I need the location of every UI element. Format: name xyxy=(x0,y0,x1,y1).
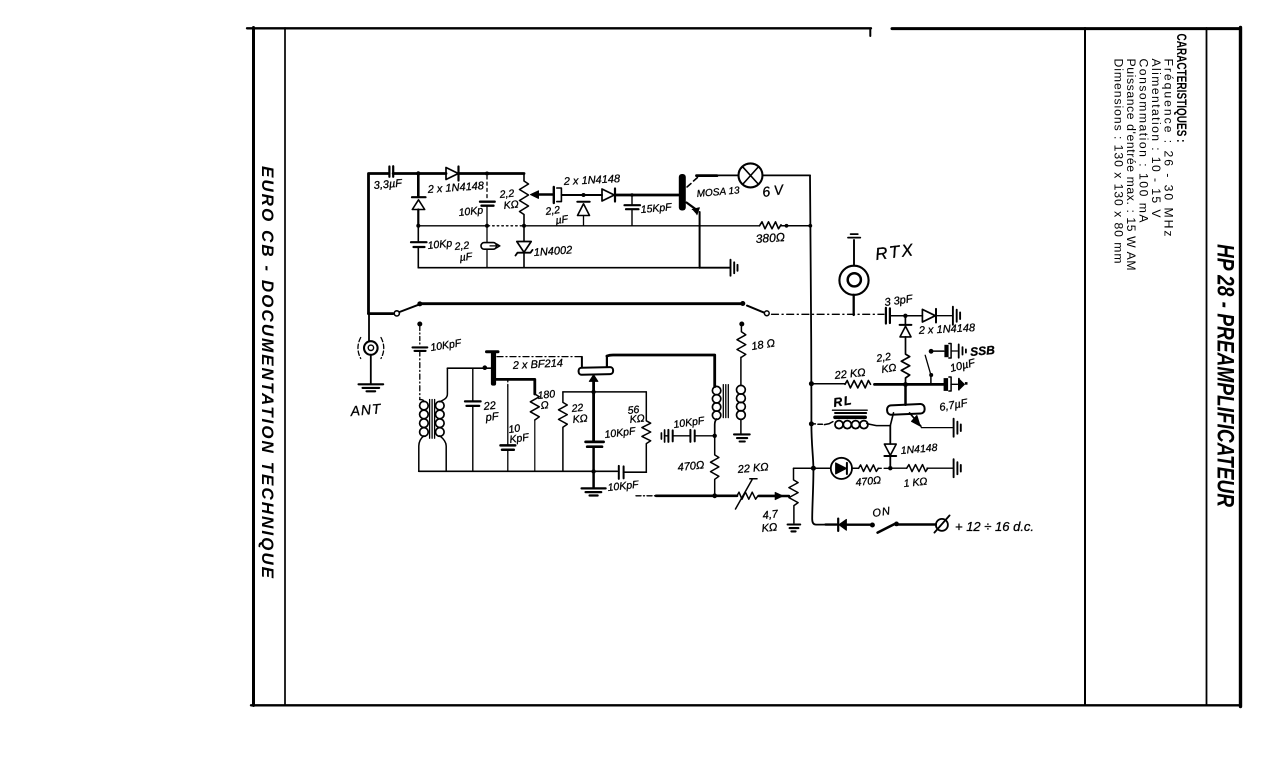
wire output ground rail (dash-dot lead in) xyxy=(636,495,656,497)
resistor 22K (AGC) xyxy=(559,392,568,471)
border frame top (with scan gap) xyxy=(247,27,871,29)
ground (4,7K bottom) xyxy=(788,525,801,532)
wire dash-dot down to 10KpF xyxy=(419,327,421,346)
node SSB contact xyxy=(929,349,934,354)
svg-text:470Ω: 470Ω xyxy=(677,459,705,474)
transistor MOSA13 emitter lead with arrow xyxy=(687,203,697,210)
transformer input: primary coil xyxy=(420,401,429,410)
svg-text:ON: ON xyxy=(872,505,892,520)
trimmer resistor 22K xyxy=(737,492,758,499)
svg-text:KΩ: KΩ xyxy=(572,412,588,426)
svg-text:KpF: KpF xyxy=(509,431,530,446)
capacitor 10KpF (antenna coupling) xyxy=(413,347,428,351)
wire diode to potentiometer 2,2K xyxy=(459,172,525,175)
junction 18R top tap xyxy=(739,322,744,327)
ground (MOSA13 emitter, sideways) xyxy=(700,267,730,269)
switch SSB select xyxy=(930,377,932,385)
capacitor 10Kp (middle, dashed lead) xyxy=(486,176,488,199)
ground (IF secondary) xyxy=(734,434,750,441)
wire dash-dot FET1 drain to FET2 xyxy=(497,356,582,358)
wire gate line to FET1 xyxy=(447,367,490,369)
svg-text:µF: µF xyxy=(459,251,473,264)
wire FET2 drain to IF transformer xyxy=(607,355,715,387)
resistor 2,2K (RTX) xyxy=(901,337,909,385)
junction 470R on output rail xyxy=(712,493,717,498)
svg-text:1N4148: 1N4148 xyxy=(900,442,938,457)
svg-text:3,3µF: 3,3µF xyxy=(373,177,404,192)
svg-text:470Ω: 470Ω xyxy=(855,474,882,489)
border frame right xyxy=(1239,28,1242,707)
wire relay left lead (dash-dot) xyxy=(811,422,833,425)
junction FET2 stem on rail xyxy=(591,469,595,473)
wire 22K to 6,7uF (thick) xyxy=(875,383,944,386)
junction RX tap below rail xyxy=(417,322,422,327)
wire wiper cap to node xyxy=(562,194,602,196)
switch blade left xyxy=(400,305,420,312)
junction 4,7K top / feed line xyxy=(811,466,816,471)
svg-text:HP 28 - PREAMPLIFICATEUR: HP 28 - PREAMPLIFICATEUR xyxy=(1212,244,1239,508)
ground (after diode, sideways) xyxy=(953,307,960,325)
svg-text:6,7µF: 6,7µF xyxy=(938,397,969,414)
svg-text:2 x 1N4148: 2 x 1N4148 xyxy=(426,180,485,196)
junction base node xyxy=(903,382,908,387)
resistor 56K xyxy=(642,392,651,472)
svg-text:22 KΩ: 22 KΩ xyxy=(736,461,769,476)
capacitor 10KpF (FET2 source) xyxy=(586,442,604,447)
diode 1N4148 (relay clamp) xyxy=(889,426,891,444)
svg-text:4,7: 4,7 xyxy=(762,508,779,522)
svg-text:KΩ: KΩ xyxy=(503,198,519,212)
diode 1N4148 shunt (left vertical) xyxy=(417,174,420,198)
junction top-left node xyxy=(416,171,420,175)
wire IF primary bottom lead xyxy=(715,419,717,436)
separator line specs column xyxy=(1084,28,1086,705)
wire MOSA13 emitter down to ground rail xyxy=(699,212,701,268)
wire antenna input riser to 3,3uF xyxy=(369,174,389,314)
ground (antenna) xyxy=(359,384,384,391)
antenna connector ANT xyxy=(368,314,370,342)
transistor right lead with arrow xyxy=(910,413,922,427)
junction gate node xyxy=(483,365,488,370)
potentiometer 2,2K vertical xyxy=(520,174,529,227)
capacitor 10KpF (series in rail) xyxy=(619,466,624,479)
diode 1N4148 a (series pair) xyxy=(446,168,458,180)
capacitor 15KpF xyxy=(630,193,634,197)
capacitor 2,2uF electrolytic (filter) xyxy=(486,226,488,268)
svg-text:2 x BF214: 2 x BF214 xyxy=(512,357,564,372)
capacitor 2,2uF electrolytic (pot wiper) xyxy=(553,187,555,203)
svg-text:10Kp: 10Kp xyxy=(427,237,453,252)
svg-text:RL: RL xyxy=(832,393,854,410)
separator line HP28 column xyxy=(1206,28,1208,705)
wire dash-dot RTX line xyxy=(772,313,885,315)
ground (1K, sideways) xyxy=(954,459,961,477)
resistor 1K xyxy=(890,467,906,469)
lamp 6V xyxy=(739,163,763,187)
diode 1N4148 (vertical, to 2,2K) xyxy=(904,316,906,325)
border frame bottom xyxy=(251,704,1240,706)
IF transformer primary coil xyxy=(712,386,720,394)
wire ground rail of power section xyxy=(418,267,699,269)
capacitor 10Kp (left leg) xyxy=(417,226,419,241)
wire primary bottom lead to rail xyxy=(419,436,424,472)
junction 10Kp top node xyxy=(485,172,489,176)
svg-text:µF: µF xyxy=(555,213,570,227)
LED indicator xyxy=(831,458,852,479)
diode clamp at node 583 xyxy=(577,201,589,203)
wire RF section ground rail xyxy=(419,470,618,472)
wire secondary bottom lead to rail xyxy=(440,436,446,472)
ground (emitter, sideways) xyxy=(954,419,961,437)
diode 1N4148 (to ground, horizontal) xyxy=(922,309,935,322)
wire switch to supply connector xyxy=(897,523,936,525)
junction node at 583 xyxy=(582,193,586,197)
svg-text:SSB: SSB xyxy=(970,343,996,359)
transformer input: core lines xyxy=(430,400,435,439)
ground stub (series caps left) xyxy=(661,430,664,442)
switch blade right xyxy=(747,306,764,313)
diode 1N4148 b (series pair) xyxy=(602,189,614,201)
wire lamp to right vertical feed xyxy=(763,174,811,176)
junction feed/zener rail xyxy=(808,224,812,228)
svg-text:2 x 1N4148: 2 x 1N4148 xyxy=(918,322,977,337)
junction rail right end xyxy=(740,301,745,306)
wire secondary top lead up to gate line xyxy=(440,368,448,402)
transistor MOSA 13 body bar xyxy=(679,174,686,211)
switch contact circle (left) xyxy=(394,311,399,316)
wire right vertical feed line xyxy=(810,175,826,524)
transistor relay driver plate xyxy=(887,404,925,415)
capacitor 10KpF double series b xyxy=(690,430,694,442)
svg-text:KΩ: KΩ xyxy=(881,362,898,376)
wire between series caps xyxy=(673,435,691,437)
svg-text:10µF: 10µF xyxy=(949,357,978,375)
svg-text:RTX: RTX xyxy=(874,240,916,264)
resistor 380R xyxy=(760,222,782,229)
junction switch pivot xyxy=(870,523,875,528)
transistor FET2 source arrow xyxy=(589,375,598,382)
border frame left xyxy=(252,28,255,706)
resistor 22K (base feed) xyxy=(811,383,845,385)
switch ON blade xyxy=(878,524,896,533)
svg-text:MOSA 13: MOSA 13 xyxy=(696,185,740,200)
relay RL coil core lines xyxy=(833,409,868,411)
junction diode / LED row xyxy=(888,466,892,470)
junction middle on zener rail xyxy=(485,224,489,228)
svg-text:1 KΩ: 1 KΩ xyxy=(903,476,928,490)
switch contact circle (right) xyxy=(764,311,769,316)
wire AGC line y392 xyxy=(563,391,646,393)
transistor left lead to relay xyxy=(890,413,893,426)
ground (SSB cap, sideways) xyxy=(959,344,966,357)
junction IF primary / coupling caps xyxy=(713,434,717,438)
wire trimmer to 4,7K wiper xyxy=(759,495,775,498)
wire LED row from feed junction xyxy=(813,467,830,469)
junction rail left end xyxy=(417,301,422,306)
wire 3,3uF to diode xyxy=(393,172,446,175)
junction left on zener rail xyxy=(416,224,420,228)
svg-text:+ 12 ÷ 16 d.c.: + 12 ÷ 16 d.c. xyxy=(955,519,1034,534)
capacitor 22pF xyxy=(472,368,474,400)
RTX connector xyxy=(853,295,855,315)
svg-text:EURO CB - DOCUMENTATION TECHNI: EURO CB - DOCUMENTATION TECHNIQUE xyxy=(258,166,277,579)
wire IF secondary bottom lead xyxy=(740,419,742,434)
capacitor 3,3pF (RTX coupling) xyxy=(886,308,890,324)
relay RL coil loops xyxy=(835,421,843,429)
transistor base stub xyxy=(904,385,907,405)
wire FET1 source thick lead to 180R xyxy=(496,379,535,394)
wire primary top lead xyxy=(420,400,424,402)
svg-text:pF: pF xyxy=(484,411,500,425)
svg-text:ANT: ANT xyxy=(349,400,383,419)
IF transformer core lines xyxy=(723,385,728,418)
wire zener rail y226 xyxy=(418,225,488,227)
capacitor 10KpF double series a xyxy=(665,435,669,437)
resistor 470R (LED) xyxy=(859,465,879,472)
wire diode to MOSA13 gate xyxy=(615,194,679,197)
svg-text:10Kp: 10Kp xyxy=(458,204,484,219)
capacitor 3,3uF xyxy=(389,166,393,177)
transistor FET2 plate xyxy=(579,367,614,375)
junction RTX coupling node xyxy=(903,314,907,318)
svg-text:1N4002: 1N4002 xyxy=(533,244,572,259)
svg-text:6 V: 6 V xyxy=(761,181,786,200)
wire antenna stub to switch contact xyxy=(369,312,393,315)
wire LED to 470R xyxy=(852,467,859,469)
svg-text:3 3pF: 3 3pF xyxy=(884,293,915,309)
capacitor 10KpF (FET1 source bypass) xyxy=(507,379,509,386)
connector +12V xyxy=(936,519,948,531)
junction relay feed xyxy=(809,421,814,426)
svg-text:10KpF: 10KpF xyxy=(607,479,640,494)
svg-text:KΩ: KΩ xyxy=(629,412,645,426)
resistor 18R xyxy=(737,327,746,358)
transistor MOSA13 collector lead (dashed) and wire to lamp xyxy=(687,178,698,188)
resistor 180R xyxy=(530,394,539,420)
zener diode 1N4002 xyxy=(522,224,526,228)
capacitor 6,7uF electrolytic xyxy=(944,378,949,391)
svg-text:10KpF: 10KpF xyxy=(430,337,463,354)
svg-text:KΩ: KΩ xyxy=(761,521,778,535)
svg-text:18 Ω: 18 Ω xyxy=(751,337,776,353)
svg-text:380Ω: 380Ω xyxy=(755,230,785,246)
wire ON line xyxy=(826,523,837,525)
potentiometer 4,7K xyxy=(789,468,798,523)
IF transformer secondary coil xyxy=(737,385,746,394)
svg-text:Ω: Ω xyxy=(540,399,549,412)
svg-text:10KpF: 10KpF xyxy=(673,415,706,431)
svg-text:2 x 1N4148: 2 x 1N4148 xyxy=(563,173,622,188)
svg-text:Dimensions : 130 x 130 x 80 mm: Dimensions : 130 x 130 x 80 mm xyxy=(1112,59,1126,264)
transistor FET1 2xBF214 body bar xyxy=(487,350,499,353)
resistor 470R (IF) xyxy=(711,436,719,496)
wiper arrow of 2,2K pot xyxy=(538,193,553,196)
wire IF secondary top lead to 18R xyxy=(740,357,742,385)
transformer input: secondary coil xyxy=(436,401,445,410)
capacitor 10uF electrolytic (SSB) xyxy=(933,350,944,352)
ground (FET2 source) xyxy=(582,488,606,495)
separator line left label column xyxy=(284,28,286,705)
diode (supply input) xyxy=(837,519,839,531)
junction FET2 source / AGC line xyxy=(591,390,595,394)
wire main antenna rail xyxy=(420,302,743,305)
wire relay right lead xyxy=(867,424,891,426)
svg-text:15KpF: 15KpF xyxy=(640,201,672,216)
junction relay line / 22K xyxy=(809,381,814,386)
svg-text:10KpF: 10KpF xyxy=(604,425,637,441)
